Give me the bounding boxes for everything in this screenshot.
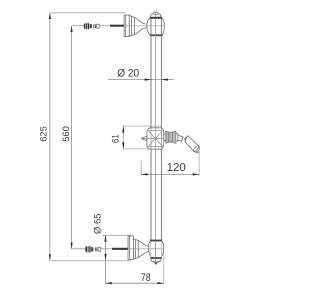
svg-text:560: 560 xyxy=(61,126,71,142)
svg-text:61: 61 xyxy=(111,134,122,143)
svg-text:625: 625 xyxy=(39,126,49,142)
svg-text:Ø 20: Ø 20 xyxy=(117,68,139,80)
svg-text:120: 120 xyxy=(167,162,186,174)
svg-text:Ø 65: Ø 65 xyxy=(91,213,102,234)
svg-text:78: 78 xyxy=(141,272,151,284)
